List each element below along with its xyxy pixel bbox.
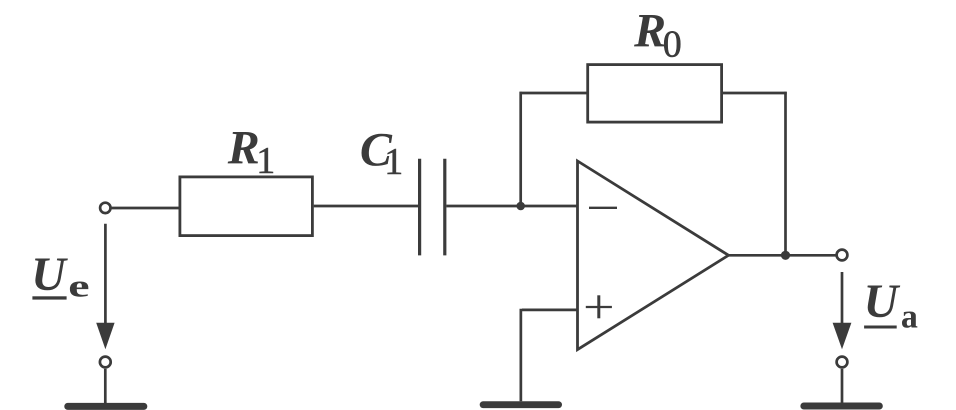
svg-text:1: 1	[384, 141, 403, 183]
svg-text:U: U	[31, 248, 68, 301]
svg-text:0: 0	[663, 23, 682, 65]
svg-text:R: R	[633, 4, 666, 57]
svg-text:a: a	[901, 298, 918, 335]
svg-text:U: U	[864, 275, 901, 328]
svg-text:e: e	[68, 268, 89, 303]
svg-text:R: R	[227, 121, 260, 174]
svg-text:1: 1	[256, 140, 275, 182]
